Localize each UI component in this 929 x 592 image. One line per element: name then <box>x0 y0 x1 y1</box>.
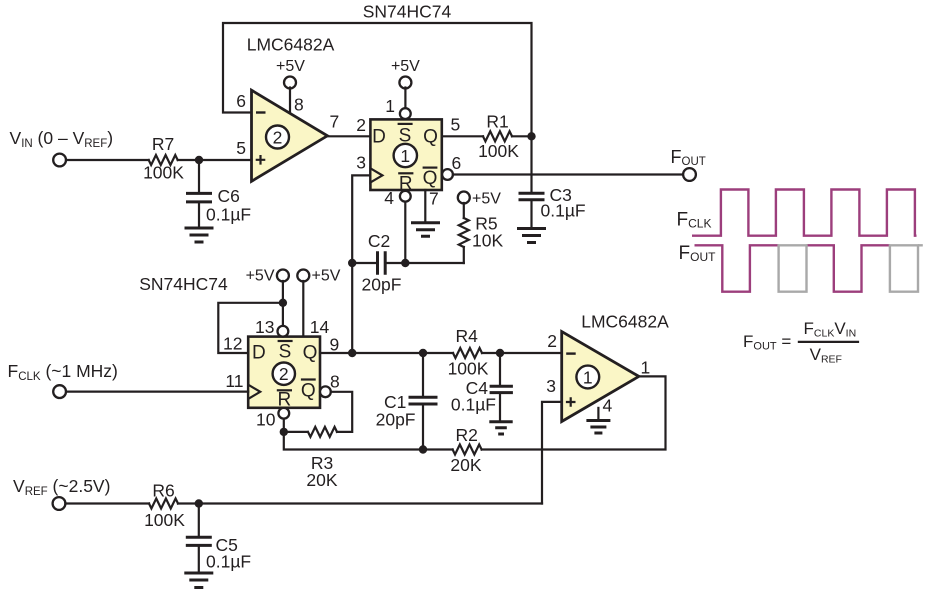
wire Q row to op-amp <box>320 352 562 354</box>
node junction C2 left <box>348 259 356 267</box>
svg-text:8: 8 <box>294 95 304 115</box>
svg-text:D: D <box>252 343 266 364</box>
ground C3 <box>517 229 546 243</box>
svg-text:SN74HC74: SN74HC74 <box>363 2 452 22</box>
+5V supply terminal U2 pin 13 <box>246 268 289 326</box>
svg-text:3: 3 <box>356 153 366 173</box>
svg-text:6: 6 <box>452 153 462 173</box>
svg-text:Q: Q <box>301 381 316 402</box>
svg-text:3: 3 <box>546 376 556 396</box>
op-amp U1 (LMC6482A #1) <box>562 332 639 422</box>
svg-text:1: 1 <box>583 368 593 388</box>
node junction R4/C4 <box>496 349 504 357</box>
capacitor C5 <box>186 504 251 572</box>
svg-text:100K: 100K <box>478 141 519 161</box>
svg-text:Q: Q <box>423 127 438 148</box>
svg-text:8: 8 <box>330 372 340 392</box>
waveform FOUT pulse grey 1 <box>779 245 807 291</box>
node junction C2/pin4 <box>401 259 409 267</box>
waveform FOUT trace magenta 2 <box>807 245 891 291</box>
svg-text:0.1µF: 0.1µF <box>451 395 496 415</box>
svg-text:0.1µF: 0.1µF <box>541 201 586 221</box>
svg-text:Q: Q <box>423 168 438 189</box>
capacitor C6 <box>186 160 251 226</box>
svg-text:Q: Q <box>303 343 318 364</box>
svg-text:20K: 20K <box>450 455 481 475</box>
svg-text:12: 12 <box>223 334 242 354</box>
+5V supply terminal U2 pin 14 <box>297 268 340 337</box>
svg-text:2: 2 <box>279 364 289 384</box>
wire Q to R1 <box>442 135 532 137</box>
svg-text:C6: C6 <box>218 186 240 206</box>
svg-text:14: 14 <box>310 317 330 337</box>
node FCLK terminal <box>53 385 66 398</box>
resistor R1 <box>483 131 512 141</box>
svg-text:6: 6 <box>236 91 246 111</box>
svg-text:9: 9 <box>330 335 340 355</box>
node FOUT terminal <box>683 168 696 181</box>
svg-text:S: S <box>279 342 292 363</box>
node junction pin13/pin12 feedback <box>279 299 287 307</box>
svg-text:+5V: +5V <box>391 58 420 75</box>
svg-text:R4: R4 <box>456 326 479 346</box>
node junction R6/C5 <box>195 499 203 507</box>
wire U1 pin 4 to ground <box>597 408 599 419</box>
svg-text:20pF: 20pF <box>362 275 402 295</box>
flip-flop U1 (SN74HC74 #1) <box>370 108 453 202</box>
resistor R2 <box>453 445 482 455</box>
node junction Q/clock net <box>348 349 356 357</box>
wire VIN row <box>66 159 252 161</box>
svg-text:R6: R6 <box>152 481 174 501</box>
node junction Q/C1 <box>419 349 427 357</box>
node junction VIN/C6 <box>195 156 203 164</box>
svg-text:100K: 100K <box>448 359 489 379</box>
wire C2 row <box>352 262 464 264</box>
waveform FCLK trace <box>692 190 917 236</box>
resistor R6 <box>149 499 178 509</box>
svg-text:+5V: +5V <box>246 268 275 285</box>
svg-text:11: 11 <box>225 371 243 391</box>
svg-text:20pF: 20pF <box>376 410 416 430</box>
node junction C1/R2 <box>419 445 427 453</box>
wire feedback to pin 12 <box>218 303 283 353</box>
svg-text:5: 5 <box>236 138 246 158</box>
node VREF terminal <box>53 497 66 510</box>
svg-text:20K: 20K <box>306 470 337 490</box>
svg-text:R1: R1 <box>486 112 508 132</box>
svg-text:7: 7 <box>429 189 439 209</box>
ground C6 <box>185 228 214 242</box>
capacitor C2 <box>362 231 402 295</box>
wire U1 pin 7 to ground <box>424 190 426 221</box>
svg-text:D: D <box>372 127 386 148</box>
svg-text:LMC6482A: LMC6482A <box>247 35 335 55</box>
svg-text:R7: R7 <box>152 134 174 154</box>
svg-text:LMC6482A: LMC6482A <box>581 312 669 332</box>
svg-text:4: 4 <box>384 188 394 208</box>
wire FOUT row <box>453 173 683 175</box>
waveform FOUT trace magenta <box>695 245 779 291</box>
svg-text:5: 5 <box>451 115 461 135</box>
svg-text:R2: R2 <box>456 425 478 445</box>
waveform FOUT pulse grey 2 <box>890 245 918 291</box>
resistor R4 <box>453 348 482 358</box>
formula FOUT = FCLK VIN / VREF <box>743 319 859 366</box>
ground C5 <box>184 573 213 588</box>
ground U1 op-amp <box>586 421 610 434</box>
wire pin 3 to VREF row <box>542 402 562 504</box>
wire R2 to op-amp output feedback <box>482 376 666 449</box>
ground U1 pin 7 <box>411 223 440 237</box>
svg-text:+5V: +5V <box>276 58 305 75</box>
svg-text:0.1µF: 0.1µF <box>206 552 251 572</box>
capacitor C4 <box>451 353 513 420</box>
svg-text:2: 2 <box>356 115 366 135</box>
wire feedback top from pin 6 to R1 node <box>223 23 532 136</box>
svg-text:100K: 100K <box>143 163 184 183</box>
svg-text:10: 10 <box>256 410 276 430</box>
node VIN terminal <box>53 154 66 167</box>
+5V supply terminal R5 <box>458 191 501 208</box>
svg-text:100K: 100K <box>144 510 185 530</box>
svg-text:7: 7 <box>330 112 340 132</box>
wire R3 node to R2 row <box>284 432 453 450</box>
wire Qbar pin 8 to R3 <box>284 392 352 432</box>
svg-text:1: 1 <box>385 96 395 116</box>
capacitor C1 <box>376 353 438 450</box>
svg-text:0.1µF: 0.1µF <box>206 205 251 225</box>
wire pin 10 to R3 node <box>283 419 285 432</box>
svg-text:SN74HC74: SN74HC74 <box>139 274 228 294</box>
wire FCLK row <box>66 391 248 393</box>
resistor R3 <box>308 427 337 437</box>
resistor R7 <box>149 155 178 165</box>
op-amp U2 (LMC6482A #2) <box>252 90 328 181</box>
svg-text:13: 13 <box>255 317 274 337</box>
svg-text:1: 1 <box>641 358 651 378</box>
svg-text:C2: C2 <box>368 231 390 251</box>
svg-text:4: 4 <box>603 396 613 416</box>
capacitor C3 <box>519 185 586 227</box>
svg-text:10K: 10K <box>472 231 503 251</box>
ground C4 <box>489 422 512 434</box>
flip-flop U2 (SN74HC74 #2) <box>248 326 331 419</box>
node junction R1/C3 <box>527 132 535 140</box>
wire U2 output to D <box>327 135 370 137</box>
wire U1 pin 4 down <box>404 202 406 263</box>
svg-text:+5V: +5V <box>472 191 501 208</box>
resistor R5 <box>459 203 504 263</box>
svg-text:1: 1 <box>400 146 410 166</box>
+5V supply terminal U1 pin 1 <box>391 58 420 108</box>
+5V supply terminal op-amp 2 <box>276 58 305 113</box>
svg-text:+5V: +5V <box>312 268 341 285</box>
wire clock net vertical <box>352 175 370 352</box>
wire R1 node down to C3 <box>530 136 532 192</box>
svg-text:2: 2 <box>273 128 283 148</box>
svg-text:2: 2 <box>547 331 557 351</box>
wire VREF row <box>65 502 542 504</box>
node junction R3/pin10 <box>280 428 288 436</box>
